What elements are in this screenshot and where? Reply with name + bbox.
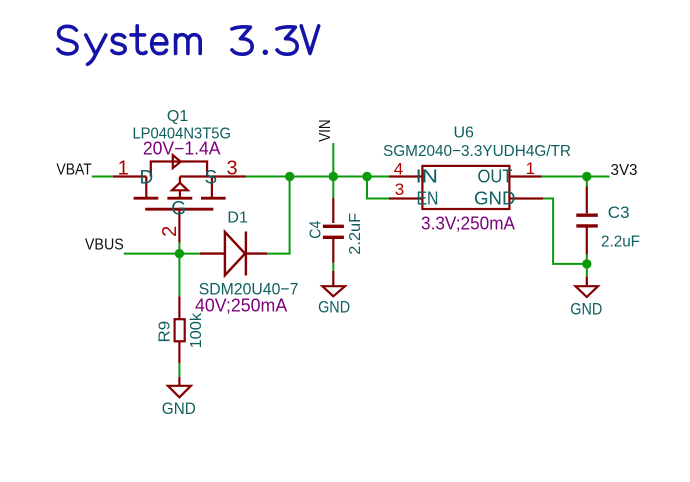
resistor R9 (175, 296, 185, 363)
U6 body rectangle (422, 166, 509, 209)
Q1 gate plate (145, 208, 213, 211)
wire VBUS node to R9 (178, 254, 180, 297)
wire EN tap (367, 177, 389, 199)
svg-text:4: 4 (394, 159, 403, 178)
wire VBAT to Q1 pin 1 (92, 176, 113, 178)
svg-text:IN: IN (416, 167, 439, 187)
svg-text:C3: C3 (608, 203, 630, 222)
diode D1 (200, 232, 267, 276)
svg-text:2: 2 (159, 226, 181, 237)
wire VBUS (124, 253, 200, 255)
Q1 D vertical (145, 177, 147, 199)
U6 pin 4 line (IN) (389, 175, 422, 177)
svg-text:3: 3 (226, 158, 237, 180)
ground symbol under C3 (576, 277, 599, 297)
wire C3 top stub (586, 177, 588, 187)
C3 top plate (576, 213, 598, 216)
wire C4 bottom stub (332, 263, 334, 271)
svg-text:2.2uF: 2.2uF (347, 213, 364, 255)
title text "System 3.3V" (stroke-font) (58, 26, 319, 65)
wire C3 bottom stub (586, 254, 588, 276)
Q1 middle arrow stem bottom (179, 190, 181, 198)
C3 bottom plate (576, 224, 598, 227)
svg-text:Q1: Q1 (167, 108, 188, 125)
svg-text:VIN: VIN (317, 119, 334, 142)
junction at VIN / C4 (329, 172, 338, 181)
ground symbol under C4 (322, 271, 345, 296)
U6 pin 2 line (GND) (509, 197, 543, 199)
junction at EN tap (362, 172, 371, 181)
svg-text:3V3: 3V3 (611, 162, 638, 179)
D1 triangle (225, 232, 245, 275)
capacitor C4 (323, 198, 344, 263)
Q1 arrow-to-S horizontal (180, 175, 212, 177)
svg-text:20V−1.4A: 20V−1.4A (143, 139, 221, 159)
C4 top plate (323, 225, 344, 228)
wire U6 OUT to 3V3 (542, 176, 610, 178)
wire Q1 S to U6 IN (246, 176, 389, 178)
svg-text:1: 1 (118, 158, 129, 180)
wire U6 GND route (543, 199, 587, 264)
svg-text:100k: 100k (188, 312, 205, 349)
Q1 middle arrow triangle (172, 183, 188, 191)
svg-text:GND: GND (570, 300, 602, 319)
Q1 pin 1 line (D) (113, 175, 147, 177)
D1 cathode pin line (246, 252, 267, 254)
svg-text:U6: U6 (453, 125, 474, 142)
wire R9 bottom to GND (178, 363, 180, 377)
U6 pin 1 line (OUT) (509, 175, 541, 177)
Q1 middle arrow stem top (179, 177, 181, 184)
U6 pin 3 line (EN) (389, 197, 422, 199)
Q1 S vertical (211, 177, 213, 199)
svg-text:40V;250mA: 40V;250mA (195, 296, 287, 316)
C4 bottom pin line (332, 239, 334, 263)
svg-text:S: S (204, 167, 217, 188)
wire Q1 gate to VBUS node (178, 243, 180, 254)
Q1 left channel bar (134, 197, 159, 200)
junction at D1 vertical / main wire (285, 172, 294, 181)
ground symbol under R9 (168, 377, 191, 397)
svg-text:C4: C4 (308, 221, 325, 239)
C4 bottom plate (323, 236, 344, 239)
svg-text:GND: GND (162, 399, 196, 418)
C3 bottom pin line (586, 228, 588, 255)
junction at 3V3 / C3 (582, 172, 591, 181)
junction at VBUS node (175, 249, 184, 258)
transistor Q1 body (113, 155, 246, 242)
C3 top pin line (586, 187, 588, 214)
capacitor C3 (576, 187, 598, 255)
C4 top pin line (332, 198, 334, 223)
svg-text:OUT: OUT (478, 167, 513, 187)
wire D1 cathode vertical (289, 177, 291, 254)
svg-text:3: 3 (395, 180, 404, 199)
regulator U6 (389, 166, 543, 209)
R9 bottom pin line (178, 341, 180, 363)
svg-text:VBAT: VBAT (56, 161, 92, 178)
svg-text:GND: GND (318, 298, 350, 317)
svg-text:D: D (140, 167, 154, 188)
svg-text:R9: R9 (156, 321, 173, 343)
D1 cathode bar (245, 232, 247, 276)
Q1 gate pin line (178, 209, 180, 242)
Q1 body-diode path (151, 162, 207, 177)
svg-text:1: 1 (526, 159, 535, 178)
svg-text:D1: D1 (227, 209, 248, 226)
svg-text:VBUS: VBUS (85, 237, 124, 254)
svg-text:GND: GND (474, 188, 516, 208)
svg-text:2.2uF: 2.2uF (601, 233, 640, 250)
R9 body (175, 319, 185, 341)
Q1 pin 3 line (S) (212, 175, 246, 177)
Q1 middle channel bar (167, 197, 192, 200)
wire D1 cathode horizontal (267, 253, 290, 255)
svg-text:G: G (171, 199, 186, 220)
svg-text:3.3V;250mA: 3.3V;250mA (421, 213, 515, 233)
svg-text:EN: EN (417, 188, 439, 208)
Q1 right channel bar (201, 197, 226, 200)
wire C4 top stub (332, 177, 334, 199)
junction at C3 bottom (582, 259, 591, 268)
svg-text:SGM2040−3.3YUDH4G/TR: SGM2040−3.3YUDH4G/TR (383, 143, 571, 160)
Q1 body-diode triangle (173, 155, 181, 168)
R9 top pin line (178, 296, 180, 319)
wire VIN drop (332, 143, 334, 177)
D1 anode pin line (200, 252, 225, 254)
